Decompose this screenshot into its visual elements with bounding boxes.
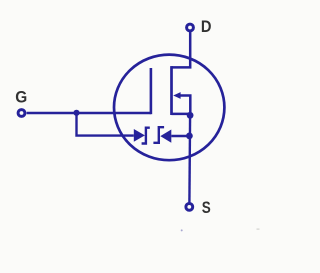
stray ink speck bbox=[181, 229, 183, 231]
svg-text:G: G bbox=[15, 88, 27, 106]
wire drain lead D to channel bbox=[172, 31, 191, 67]
gate bar bbox=[150, 68, 153, 114]
wire gate lead G to gate bar bbox=[27, 112, 151, 114]
terminal S bbox=[186, 204, 193, 211]
zener D2 cathode bar bbox=[153, 127, 164, 143]
body arrow line bbox=[180, 96, 191, 115]
node source junction bbox=[187, 112, 194, 119]
zener diode D2 (anode right) bbox=[160, 130, 171, 143]
node diode-source junction bbox=[186, 133, 193, 140]
terminal D bbox=[187, 24, 194, 31]
zener D1 cathode bar bbox=[142, 128, 150, 144]
node gate junction bbox=[73, 110, 79, 116]
wire junction down-leg to diodes bbox=[77, 113, 134, 136]
wire diodes to source line bbox=[171, 135, 189, 137]
terminal G bbox=[18, 110, 25, 117]
zener diode D1 (anode left) bbox=[134, 129, 145, 142]
svg-text:S: S bbox=[202, 199, 211, 217]
transistor envelope circle bbox=[114, 55, 224, 161]
channel bar bbox=[170, 66, 173, 115]
wire source line down to S bbox=[188, 115, 191, 203]
svg-text:D: D bbox=[201, 18, 212, 36]
wire source contact bbox=[172, 113, 191, 116]
body arrowhead bbox=[173, 92, 180, 99]
